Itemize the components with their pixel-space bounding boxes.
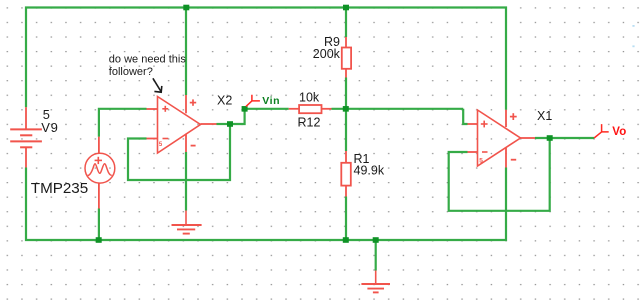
svg-text:X1: X1 (537, 109, 552, 123)
svg-text:5: 5 (479, 158, 483, 165)
svg-text:10k: 10k (299, 91, 320, 105)
svg-text:R12: R12 (298, 116, 321, 130)
svg-text:follower?: follower? (109, 66, 153, 78)
svg-text:49.9k: 49.9k (354, 164, 385, 178)
svg-text:do we need this: do we need this (109, 54, 187, 66)
svg-text:200k: 200k (313, 47, 341, 61)
svg-text:Vin: Vin (262, 95, 280, 107)
svg-text:Vo: Vo (612, 126, 626, 138)
svg-text:TMP235: TMP235 (31, 180, 88, 197)
svg-text:V9: V9 (41, 120, 59, 135)
svg-text:X2: X2 (217, 94, 232, 108)
